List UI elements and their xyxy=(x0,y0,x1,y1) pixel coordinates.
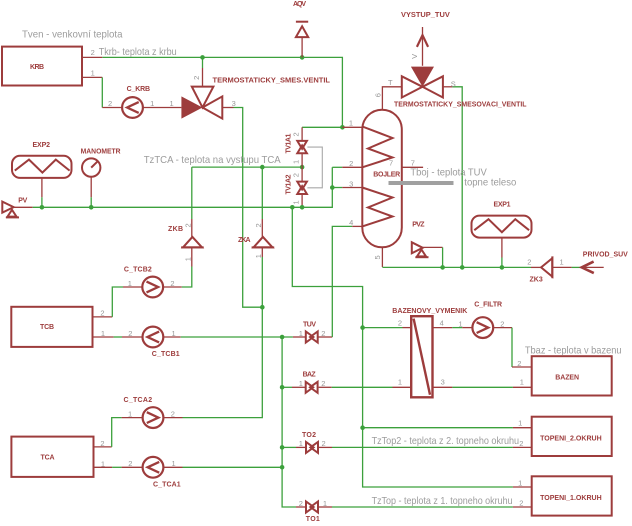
svg-text:1: 1 xyxy=(299,329,303,338)
svg-text:TCB: TCB xyxy=(40,324,54,331)
wire net Tkrb horizontal xyxy=(102,57,342,127)
wire valve2 T pin to boiler pin6 xyxy=(382,87,401,111)
wire ZKB to pump C_TCB2 xyxy=(182,267,192,288)
wire EXP1 stem xyxy=(501,238,503,268)
svg-text:2: 2 xyxy=(183,223,192,227)
svg-text:7: 7 xyxy=(389,159,393,168)
node junction topeni2 branch xyxy=(360,425,365,430)
svg-text:4: 4 xyxy=(440,319,444,328)
wire pump C_TCA2 pin2 stub xyxy=(164,417,183,419)
valve TV1A2 xyxy=(297,182,307,194)
wire AQV pin stub xyxy=(301,37,303,57)
heat exchanger BAZENOVY_VYMENIK xyxy=(411,316,432,397)
wire ZKB chain upper xyxy=(191,167,193,219)
svg-text:VYSTUP_TUV: VYSTUP_TUV xyxy=(401,12,450,19)
svg-text:TOPENI_1.OKRUH: TOPENI_1.OKRUH xyxy=(540,495,602,502)
check valve ZK3 xyxy=(541,256,552,278)
wire TCA pin2 to pump xyxy=(94,418,143,447)
wire KRB pin1 to pump xyxy=(101,77,103,107)
svg-text:TUV: TUV xyxy=(303,322,316,329)
node junction bazen branch xyxy=(290,205,295,210)
svg-text:Tkrb- teplota z krbu: Tkrb- teplota z krbu xyxy=(99,47,177,58)
wire pump C_KRB pin2 stub xyxy=(102,107,122,109)
valve U1 TERMOSTATICKY_SMES.VENTIL three-way xyxy=(181,87,222,119)
svg-text:C_TCA1: C_TCA1 xyxy=(153,481,181,488)
svg-text:C_TCA2: C_TCA2 xyxy=(124,397,153,404)
wire valve1 pin3 net TzTCA xyxy=(234,108,263,308)
svg-text:2: 2 xyxy=(398,319,402,328)
svg-text:1: 1 xyxy=(398,378,402,387)
wire ZKB pin2 stub xyxy=(191,219,193,237)
wire EXP2 stem xyxy=(41,178,43,207)
wire valve1 pin2 net xyxy=(202,57,204,68)
pump C_TCB2 xyxy=(142,277,163,298)
pump C_TCA2 xyxy=(143,407,164,428)
svg-text:T: T xyxy=(388,78,393,87)
wire TV1A2 pin2 stub xyxy=(301,167,303,181)
expansion vessel EXP1 xyxy=(472,216,532,238)
wire TV1A1 pin2 stub xyxy=(301,127,303,140)
svg-text:1: 1 xyxy=(291,200,300,204)
wire boiler pin3 stub xyxy=(332,187,362,189)
svg-text:KRB: KRB xyxy=(30,64,44,71)
wire TzTCA horizontal xyxy=(192,166,302,168)
heating element bar topne teleso xyxy=(389,181,454,185)
wire boiler pin2 stub xyxy=(332,166,362,168)
svg-text:2: 2 xyxy=(322,439,326,448)
svg-text:1: 1 xyxy=(459,319,463,328)
node junction EXP1 xyxy=(500,265,505,270)
svg-text:S: S xyxy=(451,80,456,89)
svg-text:PV: PV xyxy=(18,197,27,204)
wire valve1 pin2 stub xyxy=(202,68,204,87)
wire vymenik pin4 to C_FILTR xyxy=(433,327,473,329)
node junction Tkrb-valve2 xyxy=(200,55,205,60)
svg-text:7: 7 xyxy=(411,158,415,167)
svg-text:2: 2 xyxy=(321,379,325,388)
check valve ZKB xyxy=(181,237,204,248)
wire TO2 row xyxy=(282,446,532,448)
svg-text:ZK3: ZK3 xyxy=(530,277,543,284)
svg-text:2: 2 xyxy=(170,279,174,288)
wire return manifold xyxy=(282,337,296,507)
svg-text:1: 1 xyxy=(172,459,176,468)
valve BAZ xyxy=(306,382,318,393)
svg-text:4: 4 xyxy=(349,218,353,227)
svg-text:2: 2 xyxy=(171,409,175,418)
svg-text:3: 3 xyxy=(441,378,445,387)
svg-text:3: 3 xyxy=(232,99,236,108)
wire ZKA pin2 stub xyxy=(261,219,263,237)
svg-text:TzTop2 - teplota z 2. topneho: TzTop2 - teplota z 2. topneho okruhu xyxy=(372,436,519,447)
box KRB xyxy=(2,47,82,86)
wire pump C_TCB2 pin2 stub xyxy=(163,286,182,288)
svg-text:2: 2 xyxy=(91,48,95,57)
svg-text:1: 1 xyxy=(323,499,327,508)
boiler coil 2 xyxy=(362,188,392,227)
arrow VYSTUP_TUV xyxy=(417,27,428,66)
wire TV1A2 pin1 stub xyxy=(301,194,303,207)
node junction boiler pin1 xyxy=(340,125,345,130)
svg-text:2: 2 xyxy=(291,132,300,136)
svg-text:Tbaz - teplota v bazenu: Tbaz - teplota v bazenu xyxy=(525,346,622,357)
svg-text:1: 1 xyxy=(170,99,174,108)
svg-text:1: 1 xyxy=(183,257,192,261)
svg-text:2: 2 xyxy=(519,498,523,507)
wire pump C_KRB pin1 to valve pin1 xyxy=(143,107,181,109)
svg-text:2: 2 xyxy=(128,459,132,468)
wire PV pin stub xyxy=(14,206,33,208)
node junction boiler pin3 xyxy=(330,185,335,190)
box BAZEN xyxy=(532,356,612,395)
svg-text:3: 3 xyxy=(349,179,353,188)
pump C_TCB1 xyxy=(143,327,164,348)
node junction Tkrb-AQV xyxy=(300,55,305,60)
wire TCB pin1 to pump xyxy=(93,336,143,338)
svg-text:6: 6 xyxy=(373,93,382,97)
wire PVZ drain xyxy=(423,247,443,267)
safety valve PV xyxy=(2,202,19,218)
wire TV1A1 pin2 branch xyxy=(302,126,342,128)
svg-text:BAZEN: BAZEN xyxy=(555,375,579,382)
svg-text:2: 2 xyxy=(108,99,112,108)
svg-text:1: 1 xyxy=(349,118,353,127)
box TCA xyxy=(11,437,93,477)
wire TUV row xyxy=(164,336,333,338)
svg-text:1: 1 xyxy=(518,419,522,428)
svg-text:BOJLER: BOJLER xyxy=(373,172,400,179)
wire boiler pin7 sensor stub xyxy=(402,166,423,168)
svg-text:2: 2 xyxy=(100,439,104,448)
pump C_KRB xyxy=(122,97,143,118)
svg-text:C_FILTR: C_FILTR xyxy=(474,301,502,308)
node junction BAZ xyxy=(280,385,285,390)
wire ZK3 pin1 to arrow xyxy=(552,266,581,268)
svg-text:2: 2 xyxy=(100,309,104,318)
expansion vessel EXP2 xyxy=(12,156,72,178)
pump C_FILTR xyxy=(472,317,493,338)
svg-text:2: 2 xyxy=(291,173,300,177)
valve TO1 xyxy=(306,502,318,513)
box TOPENI_2.OKRUH xyxy=(532,417,612,456)
svg-text:1: 1 xyxy=(172,329,176,338)
wire bazen supply xyxy=(292,207,513,487)
node junction ZKA top xyxy=(260,165,265,170)
wire boiler pin5 net xyxy=(382,247,541,267)
svg-text:1: 1 xyxy=(254,254,263,258)
svg-text:1: 1 xyxy=(101,459,105,468)
svg-text:C_TCB1: C_TCB1 xyxy=(152,351,180,358)
vent valve AQV xyxy=(296,22,308,37)
valve U2 TERMOSTATICKY_SMESOVACI_VENTIL three-way xyxy=(402,67,443,98)
node junction valve S chain xyxy=(460,265,465,270)
wire C_FILTR to BAZEN pin2 xyxy=(493,328,532,367)
svg-text:1: 1 xyxy=(128,279,132,288)
wire TCA pin1 to pump xyxy=(94,466,143,468)
svg-text:2: 2 xyxy=(500,319,504,328)
wire vymenik pin3 to BAZEN xyxy=(433,386,532,388)
wire valve2 S pin chain xyxy=(443,87,462,268)
wire TUV to boiler pin4 xyxy=(332,226,362,337)
svg-text:2: 2 xyxy=(321,329,325,338)
safety valve PVZ xyxy=(412,242,429,257)
svg-text:2: 2 xyxy=(517,359,521,368)
svg-text:2: 2 xyxy=(192,76,201,80)
wire TO1 row xyxy=(318,506,532,508)
wire KRB pin1 stub xyxy=(82,76,102,78)
svg-text:1: 1 xyxy=(91,68,95,77)
svg-text:1: 1 xyxy=(520,378,524,387)
node junction vymenik pin2 xyxy=(360,325,365,330)
wire TV1A1 pin1 stub xyxy=(301,154,303,168)
svg-text:1: 1 xyxy=(299,379,303,388)
wire topeni1 pin1 stub xyxy=(513,486,532,488)
boiler BOJLER body xyxy=(362,110,402,248)
svg-text:1: 1 xyxy=(299,439,303,448)
svg-text:1: 1 xyxy=(518,478,522,487)
svg-text:TO2: TO2 xyxy=(302,432,316,439)
node junction pin3 chain xyxy=(260,305,265,310)
svg-text:2: 2 xyxy=(349,159,353,168)
node junction C_TCA1 xyxy=(280,465,285,470)
wire ZKB pin1 stub xyxy=(191,247,193,266)
box TCB xyxy=(11,307,92,347)
boiler coil 1 xyxy=(362,127,392,168)
svg-text:2: 2 xyxy=(254,223,263,227)
arrow PRIVOD_SUV xyxy=(582,262,604,274)
box TOPENI_1.OKRUH xyxy=(532,476,612,515)
svg-text:topne teleso: topne teleso xyxy=(464,178,516,189)
svg-text:EXP1: EXP1 xyxy=(494,202,511,209)
svg-text:1: 1 xyxy=(128,409,132,418)
svg-text:BAZENOVY_VYMENIK: BAZENOVY_VYMENIK xyxy=(392,308,467,315)
node junction MANOMETR xyxy=(89,205,94,210)
gauge MANOMETR xyxy=(82,158,100,176)
wire BAZ row xyxy=(282,386,411,388)
check valve ZKA xyxy=(252,237,275,248)
svg-text:TO1: TO1 xyxy=(306,516,320,523)
node junction return manifold TUV xyxy=(280,335,285,340)
wire ZKA chain upper xyxy=(261,167,263,219)
svg-text:2: 2 xyxy=(527,258,531,267)
svg-text:1: 1 xyxy=(560,258,564,267)
svg-text:TOPENI_2.OKRUH: TOPENI_2.OKRUH xyxy=(540,435,602,442)
svg-text:TzTop - teplota z 1. topneho o: TzTop - teplota z 1. topneho okruhu xyxy=(372,496,513,507)
svg-text:2: 2 xyxy=(299,499,303,508)
wire vymenik pin2 branch xyxy=(363,327,412,329)
wire main equalizer line xyxy=(33,167,333,207)
wire boiler pin1 stub xyxy=(342,126,362,128)
sensor capillary TV1A bracket xyxy=(307,147,322,188)
wire TO1 pin2 stub xyxy=(296,506,306,508)
svg-text:MANOMETR: MANOMETR xyxy=(81,149,121,156)
valve TUV xyxy=(306,332,318,343)
svg-text:TERMOSTATICKY_SMES.VENTIL: TERMOSTATICKY_SMES.VENTIL xyxy=(213,78,331,85)
wire KRB pin2 stub xyxy=(82,56,102,58)
svg-text:1: 1 xyxy=(291,160,300,164)
svg-text:5: 5 xyxy=(373,255,382,259)
node junction TO2 xyxy=(280,445,285,450)
svg-text:PRIVOD_SUV: PRIVOD_SUV xyxy=(583,252,628,259)
svg-text:PVZ: PVZ xyxy=(412,221,425,228)
wire TCB pin2 to pump xyxy=(93,287,143,317)
svg-text:Tven - venkovní teplota: Tven - venkovní teplota xyxy=(22,30,123,41)
node junction TV1A2 bottom xyxy=(300,205,305,210)
svg-text:ZKB: ZKB xyxy=(168,226,183,233)
wire ZKA pin1 stub xyxy=(261,247,263,257)
svg-text:V: V xyxy=(410,54,419,59)
svg-text:TCA: TCA xyxy=(41,455,55,462)
node junction TV1A valves xyxy=(300,165,305,170)
wire ZKA chain lower xyxy=(183,257,263,418)
svg-text:TERMOSTATICKY_SMESOVACI_VENTIL: TERMOSTATICKY_SMESOVACI_VENTIL xyxy=(394,102,527,109)
node junction PVZ xyxy=(440,265,445,270)
valve TO2 xyxy=(306,442,318,453)
svg-text:AQV: AQV xyxy=(293,1,306,8)
svg-text:C_KRB: C_KRB xyxy=(127,86,151,93)
svg-text:2: 2 xyxy=(128,329,132,338)
svg-text:C_TCB2: C_TCB2 xyxy=(124,267,152,274)
wire pump C_TCA1 pin1 net xyxy=(164,466,283,468)
wire MANOMETR stem xyxy=(90,177,92,208)
pump C_TCA1 xyxy=(143,457,164,478)
svg-text:EXP2: EXP2 xyxy=(33,142,51,149)
svg-text:2: 2 xyxy=(519,439,523,448)
node junction EXP2 xyxy=(40,205,45,210)
svg-text:ZKA: ZKA xyxy=(238,237,251,244)
valve TV1A1 xyxy=(297,141,307,153)
wire valve1 pin3 stub xyxy=(222,107,233,109)
svg-text:TzTCA - teplota na vystupu TCA: TzTCA - teplota na vystupu TCA xyxy=(144,155,281,166)
svg-text:1: 1 xyxy=(101,329,105,338)
svg-text:1: 1 xyxy=(150,99,154,108)
svg-text:BAZ: BAZ xyxy=(303,372,317,379)
wire topeni2 pin1 branch xyxy=(363,427,532,429)
